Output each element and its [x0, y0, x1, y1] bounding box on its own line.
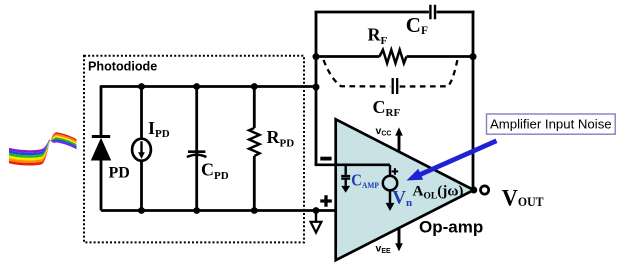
wire: inverting input into op-amp	[315, 164, 390, 167]
capacitor CPD plates	[188, 150, 205, 153]
current source IPD branch wires	[140, 87, 143, 211]
light input (rainbow ribbon)	[9, 132, 77, 165]
resistor RPD zigzag	[249, 128, 260, 156]
op-amp U1 triangle	[336, 119, 474, 260]
output terminal circle	[481, 186, 489, 194]
junction dot node inverting/RF	[313, 53, 320, 60]
wire: feedback right vertical	[472, 11, 475, 190]
resistor RF zigzag	[380, 50, 407, 63]
capacitor CAMP arrow	[345, 180, 347, 187]
vee supply arrow	[398, 228, 401, 244]
vcc supply arrow	[398, 135, 401, 151]
svg-text:Photodiode: Photodiode	[88, 59, 157, 73]
photodiode box (dotted)	[84, 56, 304, 243]
ground at non-inverting input	[315, 211, 317, 222]
svg-text:Op-amp: Op-amp	[419, 218, 483, 237]
noise source Vn plus	[392, 168, 399, 175]
current source IPD circle	[132, 139, 151, 161]
junction dots top rail	[138, 83, 145, 90]
svg-text:Amplifier Input Noise: Amplifier Input Noise	[490, 117, 612, 132]
noise source Vn arrow	[389, 191, 392, 204]
callout arrow (blue)	[418, 141, 497, 176]
wire: feedback top with CF gap	[315, 11, 475, 14]
wire: feedback network left vertical	[315, 12, 318, 165]
noise source Vn stub	[389, 165, 391, 176]
resistor RF leads	[316, 55, 473, 58]
capacitor CAMP plates	[341, 176, 350, 179]
svg-text:PD: PD	[109, 165, 130, 182]
minus input marker	[320, 157, 331, 161]
junction dot RF right	[470, 53, 477, 60]
junction dot non-inverting node	[313, 207, 320, 214]
output node dot	[470, 187, 477, 194]
capacitor CRF plates	[393, 78, 398, 94]
svg-text:AOL(jω): AOL(jω)	[413, 182, 464, 201]
photodiode PD branch wires	[100, 85, 103, 210]
callout box Amplifier Input Noise	[487, 114, 616, 134]
photodiode PD triangle	[91, 138, 111, 161]
capacitor CAMP stub	[345, 165, 347, 175]
current source IPD arrow	[140, 141, 142, 152]
junction dots bottom rail	[138, 207, 145, 214]
noise source Vn circle	[383, 176, 397, 190]
wire: top rail of photodiode network	[101, 85, 316, 88]
photodiode PD cathode bar	[92, 135, 110, 138]
junction dot node photodiode/feedback	[313, 84, 320, 91]
capacitor CPD branch wires	[195, 87, 198, 211]
capacitor CF plates	[430, 5, 435, 19]
dashed stray capacitance path	[324, 60, 391, 87]
wire: bottom rail of photodiode network	[101, 209, 336, 212]
resistor RPD branch wires	[253, 87, 256, 211]
plus input marker	[320, 195, 332, 207]
